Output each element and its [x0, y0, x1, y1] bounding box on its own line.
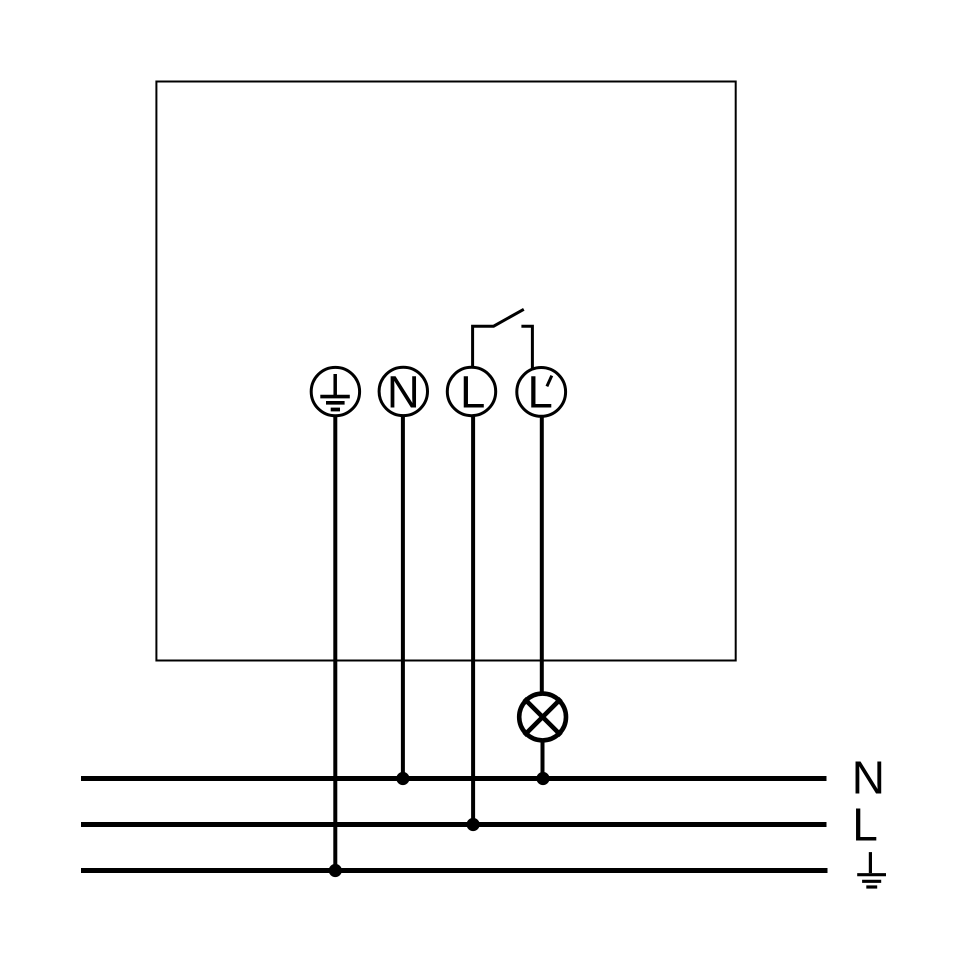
svg-text:L: L	[460, 367, 485, 418]
svg-text:L: L	[852, 799, 878, 851]
svg-text:L: L	[528, 367, 553, 418]
svg-text:N: N	[387, 367, 420, 418]
svg-text:N: N	[852, 752, 885, 804]
